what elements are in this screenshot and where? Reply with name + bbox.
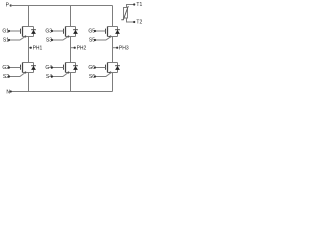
- svg-text:G6: G6: [88, 65, 95, 71]
- svg-text:PH3: PH3: [119, 45, 129, 51]
- wire: source drop of Q4 to N rail: [70, 73, 72, 92]
- transistor Q5 (MOSFET, gate G5 / source S5): [106, 27, 118, 38]
- svg-text:G4: G4: [45, 65, 52, 71]
- wire: drain drop of leg 2: [70, 6, 72, 27]
- svg-text:G2: G2: [2, 65, 9, 71]
- svg-text:S4: S4: [46, 74, 52, 80]
- svg-text:S3: S3: [46, 38, 52, 44]
- svg-text:S1: S1: [3, 38, 9, 44]
- gate terminal G5: [88, 29, 105, 35]
- gate terminal G1: [2, 29, 20, 35]
- svg-text:PH2: PH2: [77, 45, 87, 51]
- gate terminal G3: [45, 29, 63, 35]
- transistor Q2 (MOSFET, gate G2 / source S2): [21, 63, 34, 74]
- body diode of Q4: [73, 63, 78, 73]
- wire: bottom N rail: [11, 91, 113, 93]
- transistor Q3 (MOSFET, gate G3 / source S3): [64, 27, 76, 38]
- svg-text:S6: S6: [89, 74, 95, 80]
- svg-text:S5: S5: [89, 38, 95, 44]
- gate terminal G4: [45, 65, 63, 71]
- wire: source drop of Q6 to N rail: [112, 73, 114, 92]
- terminal T1: [133, 2, 142, 8]
- wire: source drop of Q2 to N rail: [28, 73, 30, 92]
- wire: phase leg 1 midpoint (Q1 source to Q2 drain): [28, 37, 30, 63]
- thermistor RT (NTC temperature sensor): [121, 5, 134, 23]
- node PH2 (phase output): [71, 45, 87, 51]
- source (kelvin) terminal S2: [3, 73, 25, 81]
- node PH1 (phase output): [29, 45, 43, 51]
- transistor Q6 (MOSFET, gate G6 / source S6): [106, 63, 118, 74]
- svg-text:T1: T1: [136, 2, 142, 8]
- wire: top P rail: [11, 5, 113, 7]
- body diode of Q1: [31, 27, 36, 37]
- svg-text:G3: G3: [45, 29, 52, 35]
- svg-text:N: N: [6, 90, 10, 96]
- body diode of Q5: [115, 27, 120, 37]
- wire: drain drop of leg 3: [112, 6, 114, 27]
- transistor Q1 (MOSFET, gate G1 / source S1): [21, 27, 34, 38]
- svg-text:P: P: [6, 2, 10, 8]
- body diode of Q3: [73, 27, 78, 37]
- source (kelvin) terminal S4: [46, 73, 68, 81]
- wire: phase leg 2 midpoint (Q3 source to Q4 drain): [70, 37, 72, 63]
- wire: phase leg 3 midpoint (Q5 source to Q6 drain): [112, 37, 114, 63]
- P terminal (positive DC bus): [6, 2, 12, 8]
- body diode of Q2: [31, 63, 36, 73]
- svg-text:T2: T2: [136, 20, 142, 26]
- N terminal (negative DC bus): [6, 90, 11, 96]
- gate terminal G2: [2, 65, 20, 71]
- wire: drain drop of leg 1: [28, 6, 30, 27]
- transistor Q4 (MOSFET, gate G4 / source S4): [64, 63, 76, 74]
- source (kelvin) terminal S1: [3, 37, 25, 44]
- svg-text:G5: G5: [88, 29, 95, 35]
- svg-text:S2: S2: [3, 74, 9, 80]
- terminal T2: [133, 20, 142, 26]
- source (kelvin) terminal S6: [89, 73, 111, 81]
- gate terminal G6: [88, 65, 105, 71]
- svg-text:G1: G1: [2, 29, 9, 35]
- source (kelvin) terminal S5: [89, 37, 111, 44]
- node PH3 (phase output): [113, 45, 129, 51]
- svg-text:PH1: PH1: [33, 45, 43, 51]
- body diode of Q6: [115, 63, 120, 73]
- source (kelvin) terminal S3: [46, 37, 68, 44]
